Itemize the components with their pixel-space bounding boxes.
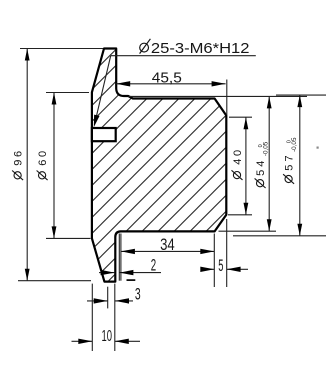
extension line right	[114, 284, 116, 351]
right extension line	[226, 80, 228, 116]
arrow Ø54 top	[267, 96, 272, 108]
svg-text:40: 40	[232, 147, 244, 164]
arrow Ø54 bottom	[267, 219, 272, 231]
stray dot right edge	[317, 147, 319, 149]
extension line top	[129, 95, 308, 97]
arrow 2 right	[119, 270, 133, 275]
svg-text:34: 34	[160, 235, 175, 254]
extension line top	[276, 94, 326, 96]
label Ø54 with tolerance	[255, 141, 270, 188]
hatching (section)	[85, 40, 235, 290]
dimension 5	[203, 219, 248, 287]
dimension line	[121, 250, 214, 252]
dimension line	[268, 96, 270, 231]
extension line right (body right edge extended)	[226, 219, 228, 287]
arrow Ø40 bottom	[244, 203, 249, 215]
arrow Ø57 bottom	[297, 224, 302, 236]
extension line top	[20, 48, 103, 50]
dimension 45,5	[116, 80, 227, 116]
svg-text:-0,05: -0,05	[262, 141, 269, 156]
part outline	[92, 49, 226, 282]
dimension line	[299, 95, 301, 236]
svg-text:3: 3	[135, 285, 141, 304]
arrow Ø57 top	[297, 95, 302, 107]
arrow Ø96 bottom	[25, 269, 30, 281]
leader arrowhead	[94, 115, 100, 128]
M6 tapped hole (white rectangle in section)	[92, 128, 116, 141]
dimension 10	[72, 284, 141, 351]
dimension Ø96	[18, 49, 103, 281]
arrow 34 left	[121, 249, 135, 254]
leader Ø25-3-M6*H12	[95, 56, 256, 124]
dimension 3	[87, 287, 133, 309]
extension line right	[213, 234, 215, 288]
dimension line	[26, 49, 28, 281]
arrow 34 right	[200, 249, 214, 254]
dimension Ø60	[46, 93, 91, 239]
extension line left (short)	[107, 287, 109, 309]
dimension Ø57 0/-0.05	[233, 95, 326, 236]
dimension 2	[99, 234, 161, 281]
extension line bottom	[46, 237, 91, 239]
label Ø96	[12, 148, 24, 180]
svg-text:45,5: 45,5	[152, 69, 182, 86]
arrow Ø60 top	[52, 93, 57, 105]
arrow 3 right	[115, 298, 129, 303]
arrow 45,5 left	[116, 81, 130, 86]
arrow Ø60 bottom	[52, 226, 57, 238]
dimension 34	[121, 234, 214, 288]
svg-text:2: 2	[151, 256, 156, 275]
dimension line	[245, 117, 247, 215]
label Ø40	[232, 147, 244, 180]
stray mark near bottom tip	[127, 279, 136, 281]
arrow Ø40 top	[244, 117, 249, 129]
arrow 5 left	[200, 267, 214, 272]
arrow 10 left	[78, 339, 92, 344]
svg-text:57: 57	[284, 152, 296, 170]
extension line bottom	[233, 235, 326, 237]
dimension Ø54 0/-0.05	[129, 96, 308, 231]
label Ø57 with tolerance	[283, 137, 298, 184]
svg-text:5: 5	[218, 256, 223, 275]
extension line left	[91, 284, 93, 351]
svg-text:96: 96	[13, 148, 25, 165]
arrow 10 right	[115, 339, 129, 344]
arrow Ø96 top	[25, 49, 30, 61]
dimension line	[53, 93, 55, 239]
extension line bottom	[18, 280, 91, 282]
label Ø60	[37, 148, 49, 180]
arrow 3 left	[94, 298, 108, 303]
arrow 5 right	[227, 267, 241, 272]
svg-text:10: 10	[102, 328, 113, 345]
arrow 45,5 right	[212, 81, 226, 86]
extension line bottom	[219, 230, 277, 232]
extension line right of 2	[118, 234, 120, 281]
extension line top	[229, 116, 252, 118]
svg-text:25-3-M6*H12: 25-3-M6*H12	[151, 40, 250, 57]
arrow 2 left	[101, 270, 115, 275]
extension line bottom	[228, 214, 252, 216]
dimension Ø40	[228, 117, 252, 215]
extension line top	[46, 92, 89, 94]
svg-text:60: 60	[37, 148, 49, 165]
label Ø25-3-M6*H12	[140, 39, 250, 57]
svg-text:-0,05: -0,05	[291, 137, 298, 152]
svg-text:54: 54	[255, 157, 267, 175]
extension line left	[120, 234, 122, 281]
